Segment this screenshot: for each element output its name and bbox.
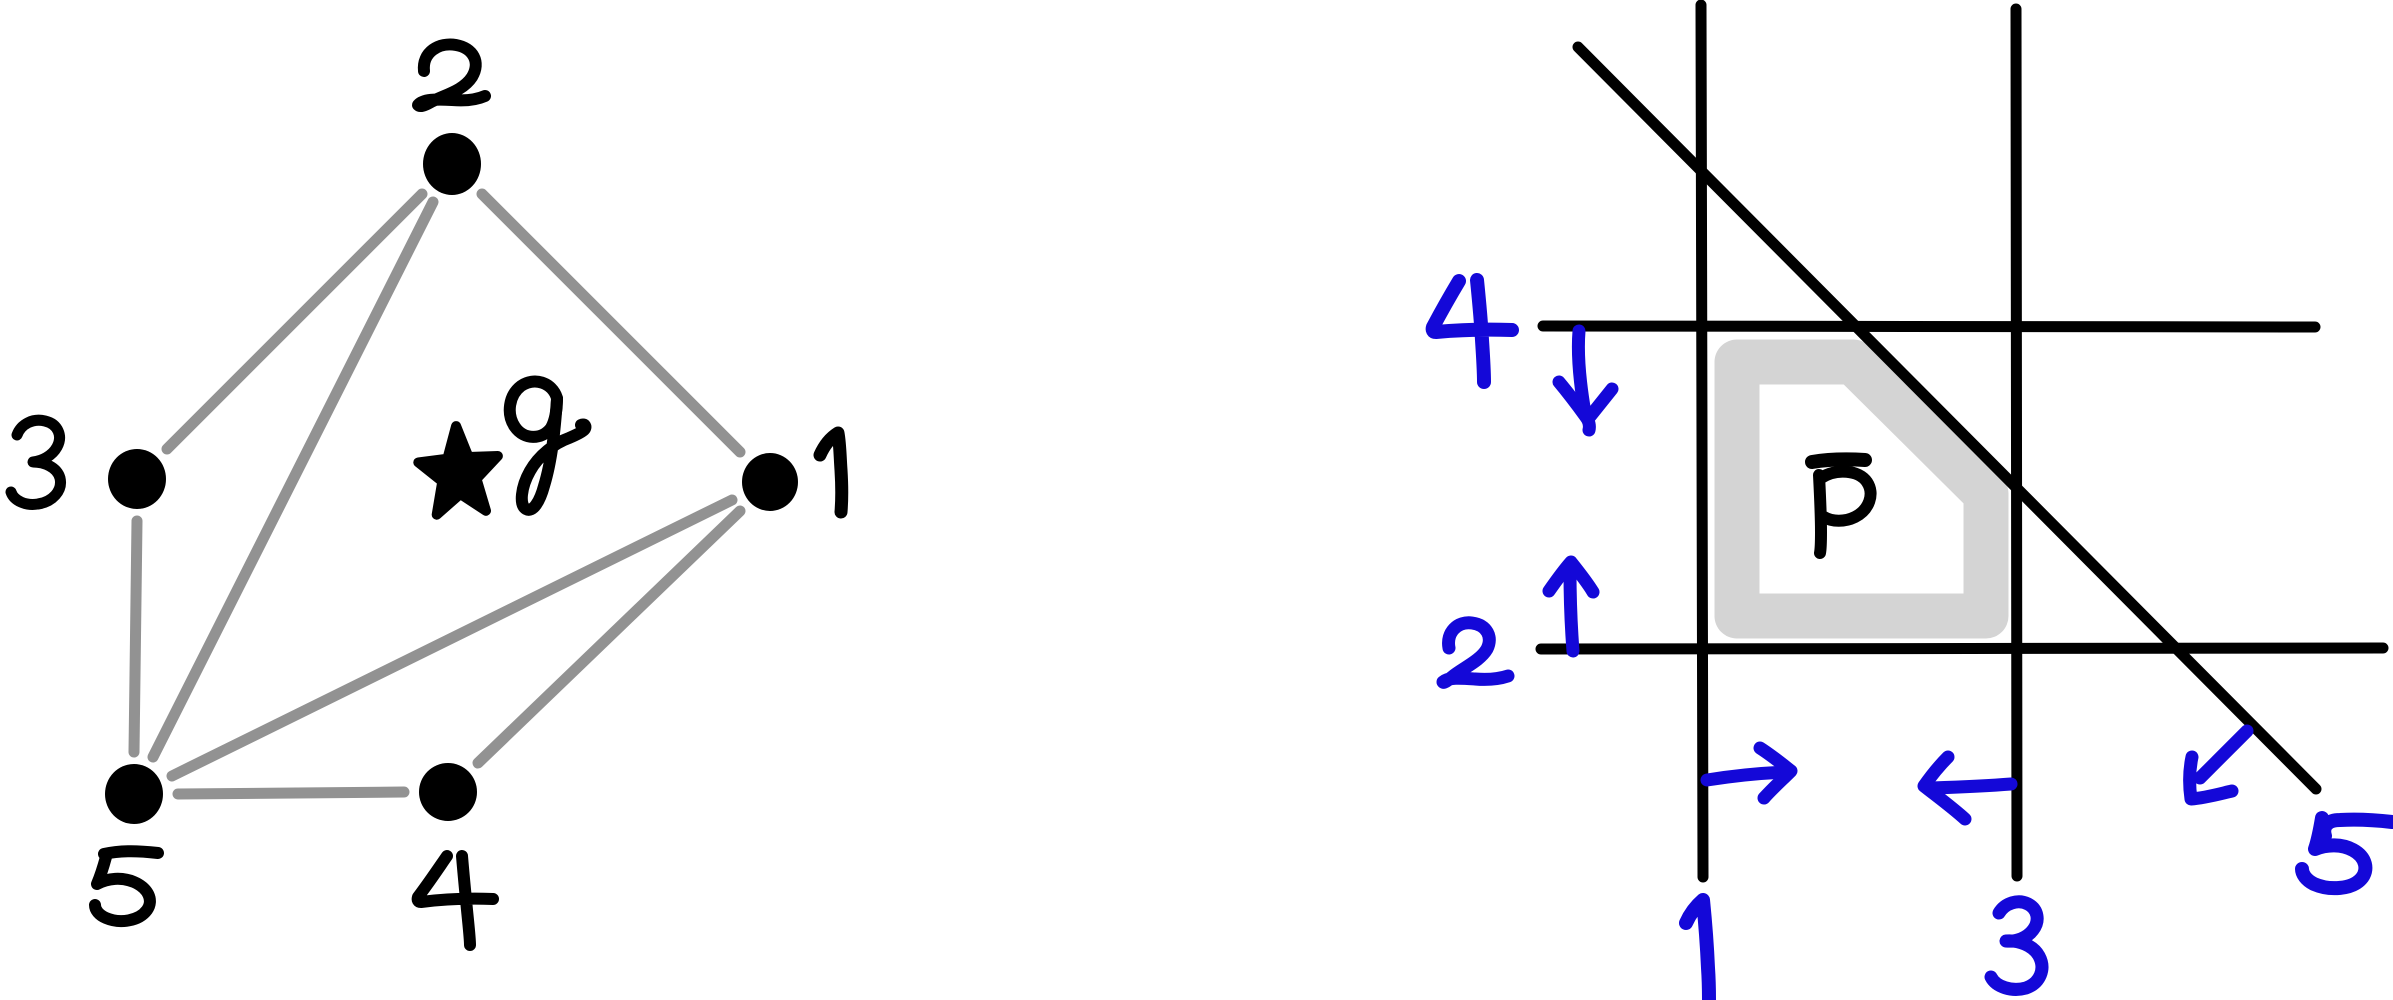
arrow left of line 3 (blue, pointing left) bbox=[1924, 757, 2011, 819]
label 3 (line 3, blue) bbox=[1991, 902, 2042, 990]
line 5 (diagonal) bbox=[1578, 47, 2316, 789]
line 3 (vertical) bbox=[2016, 9, 2017, 876]
wire edge 3-5 bbox=[134, 521, 137, 752]
node 4 vertex dot bbox=[419, 763, 477, 821]
label P-bar bbox=[1812, 459, 1871, 553]
node 3 vertex dot bbox=[108, 449, 166, 509]
label 4 (node 4) bbox=[418, 856, 493, 945]
label 5 (node 5) bbox=[95, 851, 158, 921]
arrow right of line 1 (blue, pointing right) bbox=[1707, 748, 1791, 798]
wire edge 5-1 bbox=[172, 500, 732, 776]
line 2 (horizontal) bbox=[1541, 648, 2383, 649]
line 4 (horizontal) bbox=[1543, 326, 2315, 327]
label 3 (node 3) bbox=[11, 420, 60, 504]
script letter q label bbox=[510, 382, 586, 510]
face P region band bbox=[1737, 362, 1986, 616]
node 5 vertex dot bbox=[105, 764, 163, 824]
wire edge 2-5 bbox=[153, 202, 433, 757]
node 2 vertex dot bbox=[423, 133, 481, 195]
wire edge 5-4 bbox=[178, 792, 404, 794]
label 2 (line 2, blue) bbox=[1443, 623, 1508, 682]
wire edge 4-1 bbox=[478, 511, 740, 763]
star symbol bbox=[418, 426, 498, 515]
wire edge 2-3 bbox=[167, 194, 422, 449]
wire edge 2-1 bbox=[482, 194, 740, 452]
label 1 (node 1) bbox=[820, 433, 842, 512]
node 1 vertex dot bbox=[742, 453, 798, 511]
arrow below line 4 (blue, pointing down) bbox=[1559, 331, 1612, 430]
label 5 (line 5, blue) bbox=[2302, 818, 2392, 888]
arrow on line 5 (blue, pointing down-left) bbox=[2190, 731, 2247, 799]
label 2 (node 2) bbox=[418, 44, 485, 106]
label 4 (line 4, blue) bbox=[1433, 280, 1512, 382]
arrow above line 2 (blue, pointing up) bbox=[1549, 562, 1593, 651]
line 1 (vertical) bbox=[1701, 5, 1703, 877]
label 1 (line 1, blue) bbox=[1686, 900, 1709, 1000]
